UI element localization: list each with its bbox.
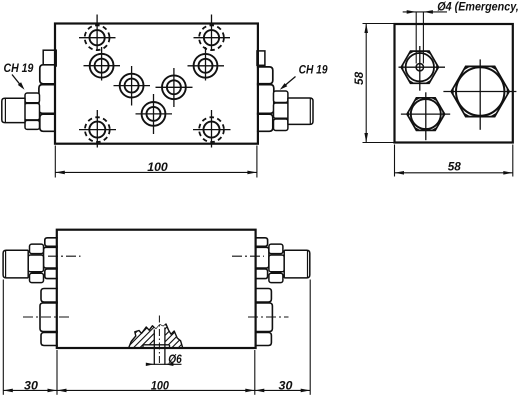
hex nut 2 [407, 98, 445, 131]
chain dim extension line far-right [309, 280, 311, 395]
hex nut 2 corner chamfers [442, 110, 444, 118]
chain dim extension line block-right [254, 350, 256, 395]
svg-text:30: 30 [24, 380, 39, 392]
hex plug 3 corner chamfers [507, 87, 510, 96]
counterbored hole D [162, 75, 186, 99]
port hole A (dashed o-ring groove) [90, 30, 105, 45]
svg-text:30: 30 [279, 380, 294, 392]
valve block body (bottom view) [57, 230, 256, 348]
bottom-right fitting nut facet top [255, 238, 268, 247]
right fitting hex CH19 facet middle [274, 103, 289, 118]
bottom-right fitting hex facet bottom [269, 273, 283, 282]
svg-text:Ø4 (Emergency,: Ø4 (Emergency, [437, 0, 518, 13]
bottom-right fitting hex facet middle [269, 255, 284, 272]
dimension Ø6 line [147, 363, 182, 365]
bottom-left fitting nut facet middle [44, 247, 58, 268]
bottom-right fitting centerline [232, 255, 264, 257]
svg-text:CH 19: CH 19 [4, 63, 34, 75]
left port nut facet middle [39, 85, 56, 114]
bottom-left fitting hex facet bottom [30, 273, 44, 282]
hex nut 2 crosshair [401, 113, 450, 115]
bottom-right lower port facet middle [255, 303, 273, 332]
hex nut 1 crosshair [399, 66, 446, 68]
right fitting hex CH19 facet top [274, 91, 288, 103]
chain dim arrow at far-left [3, 389, 13, 393]
dimension 58 left extension lines [363, 23, 395, 25]
right fitting threaded tip [288, 98, 313, 124]
hex plug 3 crosshair [443, 91, 516, 93]
dimension Ø4 line [403, 11, 447, 13]
dimension Ø6 arrows [146, 363, 155, 366]
bottom-left fitting threaded tip [3, 250, 28, 278]
left fitting threaded tip [2, 98, 25, 122]
bottom-right fitting nut facet bottom [255, 269, 268, 279]
bottom-left fitting hex facet middle [28, 255, 43, 272]
left port boss step [43, 50, 56, 66]
Ø6 hole counterbore [143, 344, 170, 346]
hex nut 1 (with Ø4 emergency hole) [401, 51, 438, 83]
left fitting hex CH19 facet bottom [25, 120, 40, 129]
dimension 58 bottom line [395, 172, 513, 174]
bottom-right lower port centerline [248, 316, 289, 318]
bottom-left fitting nut facet bottom [45, 269, 58, 279]
dimension Ø4 arrows [407, 10, 417, 14]
dimension 58 left arrows [364, 24, 368, 34]
counterbored hole G [142, 102, 166, 126]
svg-text:58: 58 [448, 162, 462, 174]
dimension 100 line [55, 171, 257, 173]
hex plug 3 (large) [451, 66, 509, 116]
right port nut facet middle [257, 85, 274, 114]
mounting hole I (dashed) [204, 122, 220, 138]
right port nut facet top [257, 67, 273, 84]
dimension 58 bottom arrows [395, 171, 405, 175]
bottom-right fitting nut facet middle [255, 247, 269, 268]
Ø6 hole right wall and extension [164, 328, 166, 365]
counterbored hole E [194, 54, 218, 78]
bottom-left fitting centerline [48, 255, 81, 257]
bottom-right lower port facet top [255, 289, 272, 303]
left port nut facet top [40, 65, 56, 84]
left fitting hex CH19 facet middle [25, 103, 40, 120]
broken-out section outline (freehand break) [129, 324, 183, 348]
svg-text:CH 19: CH 19 [299, 65, 328, 77]
bottom-right fitting hex facet top [269, 244, 283, 254]
bottom-left fitting nut facet top [45, 238, 58, 247]
bottom-left lower port facet middle [40, 303, 58, 332]
svg-text:58: 58 [354, 71, 366, 85]
chain dimension line [3, 389, 310, 391]
chain dim arrows at block-left [48, 389, 58, 393]
port hole F (dashed o-ring groove) [204, 30, 219, 45]
valve block body (front view) [55, 24, 258, 144]
hex nut 1 corner chamfers [436, 63, 438, 71]
Ø6 hole left wall and extension [153, 330, 155, 365]
bottom-right lower port facet bottom [255, 333, 272, 346]
mounting hole H (dashed) [89, 122, 105, 138]
dimension 58 bottom extension lines [394, 145, 396, 177]
bottom-left lower port centerline [23, 316, 69, 318]
right port nut facet bottom [257, 114, 273, 131]
chain dim arrows at block-right [245, 389, 255, 393]
left fitting hex CH19 facet top [25, 93, 40, 103]
left port nut facet bottom [40, 114, 56, 131]
counterbored hole B [90, 54, 114, 78]
bottom-right fitting threaded tip [284, 250, 310, 278]
right port boss step [257, 51, 265, 65]
dimension Ø4 extension lines [415, 13, 417, 64]
bottom-left lower port facet bottom [41, 333, 58, 346]
right fitting hex CH19 facet bottom [274, 119, 288, 131]
valve block body (side view square) [395, 24, 513, 143]
svg-text:100: 100 [151, 380, 170, 392]
dimension 100 extension lines [54, 146, 56, 178]
dimension 58 left line [365, 24, 367, 143]
svg-text:100: 100 [147, 160, 168, 174]
svg-text:Ø6: Ø6 [168, 354, 182, 366]
bottom-left lower port facet top [41, 289, 58, 303]
chain dim extension line block-left [56, 350, 58, 395]
leader arrow CH 19 left [12, 75, 22, 88]
chain dim arrow at far-right [301, 389, 311, 393]
bottom-left fitting hex facet top [30, 244, 44, 254]
dimension 100 arrows [55, 171, 65, 175]
Ø6 hole centerline [158, 316, 160, 366]
chain dim extension line far-left [2, 280, 4, 395]
counterbored hole C [120, 74, 144, 98]
leader arrow CH 19 right [282, 77, 295, 88]
